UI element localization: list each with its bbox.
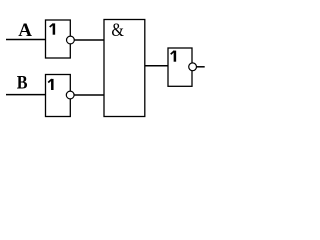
inverter DD4 label 1 [171,51,175,62]
svg-text:&: & [111,20,124,40]
wire input B [6,94,46,96]
wire circuit output [196,66,204,68]
inverter DD4 box [168,48,192,86]
svg-text:A: A [18,20,32,41]
inverter DD1 label 1 [50,23,54,34]
inverter DD2 label 1 [48,79,52,90]
inverter DD2 bubble [66,91,74,99]
svg-text:B: B [17,71,28,93]
wire AND output to inverter DD4 [145,65,169,67]
inverter DD1 bubble [67,36,75,44]
wire input A [6,39,46,41]
inverter DD4 bubble [189,63,197,71]
wire inverter DD2 output to AND [75,94,106,96]
inverter DD1 box [46,20,71,58]
wire inverter DD1 output to AND [75,39,106,41]
AND gate DD3 box [104,20,145,117]
inverter DD2 box [46,75,71,117]
